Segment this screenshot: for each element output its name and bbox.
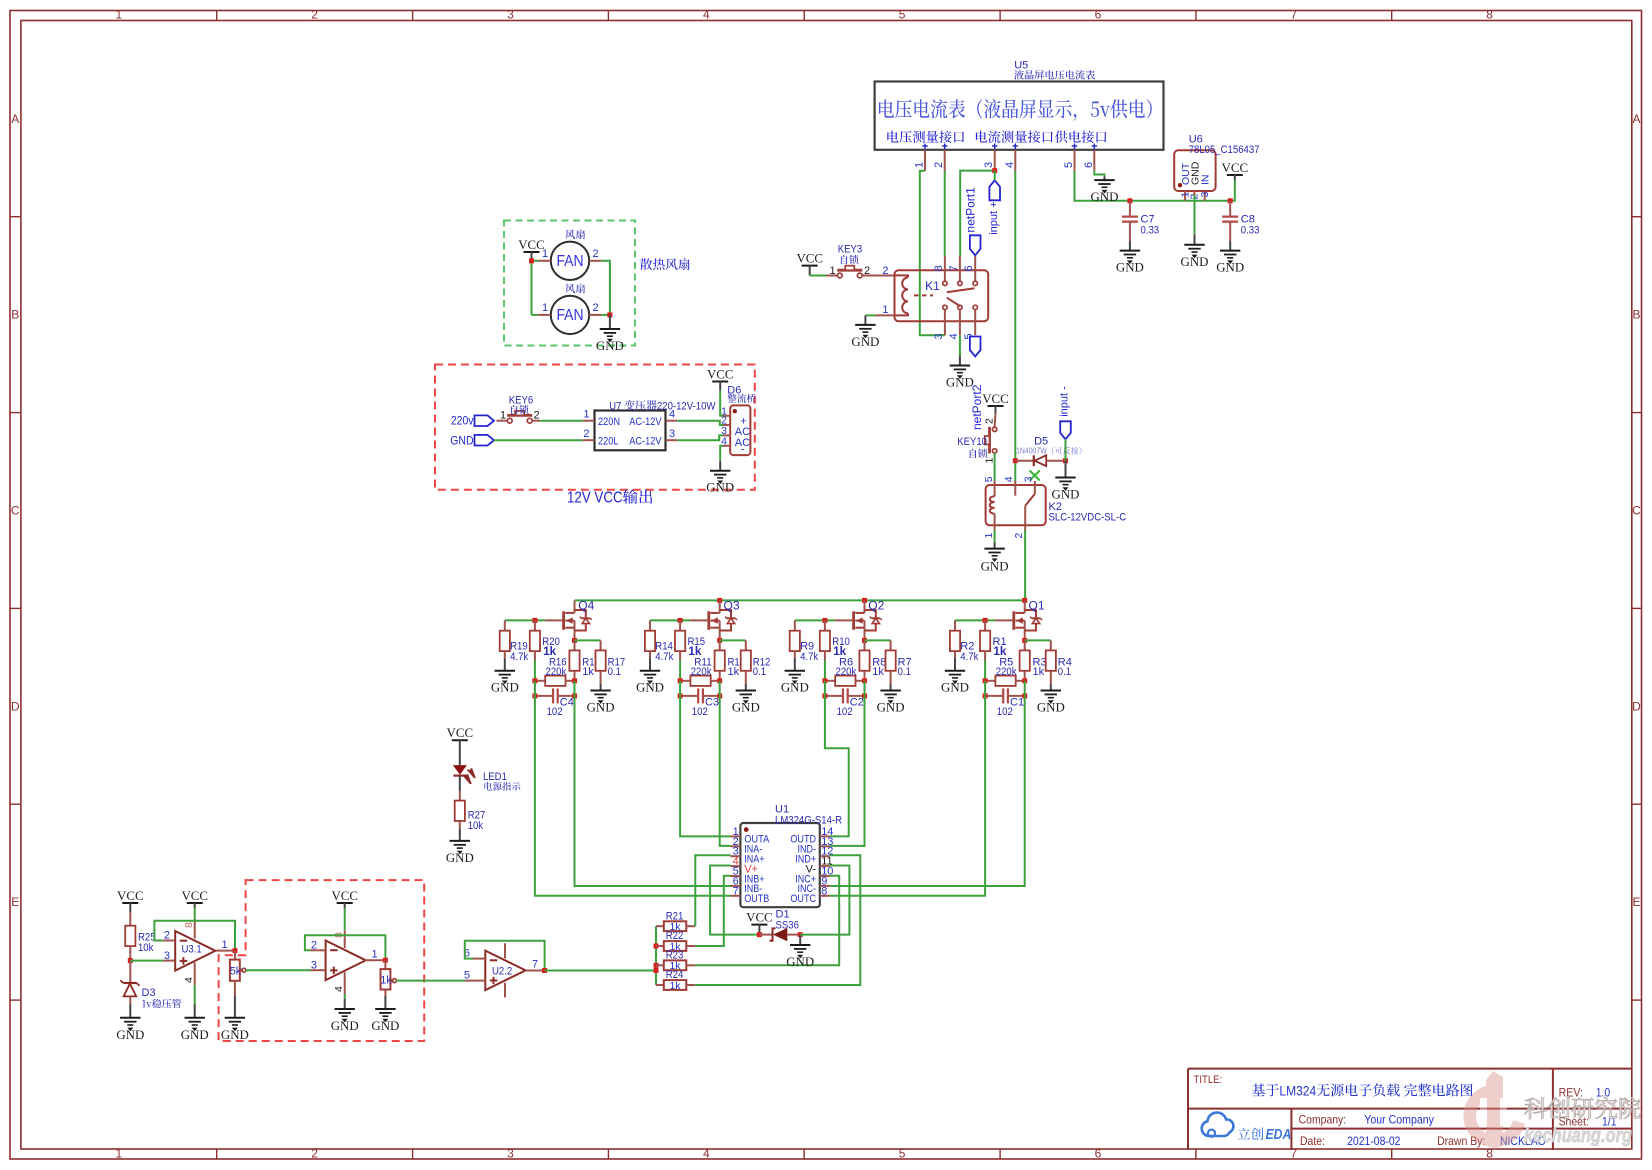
wire U5 pin4 down to K2 pin4 bbox=[1014, 171, 1016, 481]
dashed enclosure cooling fans bbox=[504, 221, 635, 346]
node R16 ends bbox=[532, 678, 537, 683]
wire gate column Q3 bbox=[679, 661, 681, 681]
wire U2.1 pin4 to GND bbox=[344, 994, 346, 999]
ground C8 bbox=[1229, 241, 1231, 251]
svg-text:220k: 220k bbox=[691, 666, 712, 678]
svg-text:FAN: FAN bbox=[556, 253, 583, 270]
switch KEY6 bbox=[497, 420, 508, 422]
svg-text:IN: IN bbox=[1200, 175, 1212, 186]
svg-text:5k: 5k bbox=[230, 965, 242, 977]
wire gate node Q4 bbox=[505, 619, 545, 621]
zener D3 1v bbox=[129, 961, 131, 983]
svg-text:TITLE:: TITLE: bbox=[1194, 1074, 1223, 1086]
svg-text:102: 102 bbox=[692, 706, 708, 718]
ground D1 bbox=[799, 935, 801, 945]
svg-text:3: 3 bbox=[507, 7, 514, 21]
svg-text:netPort1: netPort1 bbox=[963, 187, 977, 233]
wire drain bus bbox=[575, 599, 1025, 601]
svg-text:8: 8 bbox=[183, 922, 195, 928]
svg-text:input -: input - bbox=[1059, 386, 1071, 417]
svg-text:4.7k: 4.7k bbox=[655, 651, 674, 663]
svg-text:8: 8 bbox=[1486, 1146, 1493, 1160]
svg-text:U5: U5 bbox=[1014, 60, 1028, 72]
watermark kechuang bbox=[1470, 1071, 1519, 1150]
module U5 LCD volt/ammeter box bbox=[875, 82, 1164, 150]
wire sense to R7 bbox=[865, 639, 891, 641]
svg-text:8: 8 bbox=[1486, 7, 1493, 21]
svg-text:1: 1 bbox=[830, 265, 836, 277]
svg-text:VCC: VCC bbox=[518, 238, 545, 252]
svg-text:1: 1 bbox=[542, 248, 548, 260]
svg-text:0.33: 0.33 bbox=[1141, 225, 1160, 237]
svg-text:7: 7 bbox=[733, 885, 739, 897]
svg-text:4.7k: 4.7k bbox=[960, 651, 979, 663]
node C8 tap bbox=[1228, 198, 1233, 203]
wire U6 pin2 to GND bbox=[1194, 195, 1196, 235]
svg-text:GND: GND bbox=[981, 560, 1009, 574]
svg-text:input +: input + bbox=[988, 201, 1000, 234]
svg-text:C: C bbox=[1632, 504, 1641, 518]
potentiometer RP 5k bbox=[234, 951, 236, 960]
svg-text:1: 1 bbox=[115, 1146, 122, 1160]
wire gate column Q2 bbox=[824, 661, 826, 681]
ground R2 bbox=[954, 659, 956, 671]
svg-text:3: 3 bbox=[669, 428, 675, 440]
svg-text:1: 1 bbox=[583, 409, 589, 421]
node R25/D3 bbox=[128, 958, 133, 963]
node C2 ends bbox=[822, 693, 827, 698]
wire K1 pin4 to GND bbox=[959, 335, 961, 355]
resistor R22 1k bbox=[656, 945, 664, 947]
node D1 anode bbox=[798, 932, 803, 937]
net flag netPort1 on K1 pin6 bbox=[970, 235, 981, 255]
wire KEY10 to K2 pin5 bbox=[994, 453, 996, 481]
svg-text:U3.1: U3.1 bbox=[182, 943, 202, 955]
node divider taps bbox=[654, 944, 659, 949]
net flag input+ bbox=[989, 180, 1000, 200]
svg-text:D: D bbox=[1632, 699, 1641, 713]
wire cell A gate to U1 OUTB bbox=[535, 696, 731, 896]
svg-text:1k: 1k bbox=[872, 666, 884, 678]
resistor R6 220k bbox=[825, 680, 835, 682]
net flag input- bbox=[1060, 421, 1071, 439]
svg-text:Q4: Q4 bbox=[578, 598, 594, 612]
wire R21 to U1 INA+ bbox=[695, 855, 730, 926]
op-amp U2.1 bbox=[326, 941, 366, 981]
label cooling fans bbox=[640, 258, 690, 270]
ground U2.1 bbox=[344, 999, 346, 1009]
resistor R5 220k bbox=[985, 680, 995, 682]
svg-text:1: 1 bbox=[882, 304, 888, 316]
svg-text:220v: 220v bbox=[451, 414, 474, 428]
svg-text:GND: GND bbox=[181, 1028, 209, 1042]
svg-text:220L: 220L bbox=[598, 435, 619, 447]
ground K1 pin4 bbox=[959, 355, 961, 365]
U5 pin 3 stub bbox=[994, 150, 996, 171]
svg-text:1: 1 bbox=[542, 302, 548, 314]
svg-text:B: B bbox=[1632, 308, 1640, 322]
svg-text:102: 102 bbox=[997, 706, 1013, 718]
wire fan return right bbox=[602, 261, 610, 315]
svg-text:3: 3 bbox=[1199, 192, 1211, 198]
no-connect X on K2 pin3 bbox=[1030, 471, 1040, 481]
wire sense to R12 bbox=[720, 639, 746, 641]
logo EasyEDA bbox=[1202, 1113, 1234, 1137]
resistor R1 1k gate bbox=[984, 620, 986, 630]
node VCC/D1 bbox=[757, 932, 762, 937]
ground R14 bbox=[649, 659, 651, 671]
wire gate column Q4 bbox=[534, 661, 536, 681]
wire R23 to U1 INC+ bbox=[695, 876, 839, 966]
svg-text:2: 2 bbox=[983, 418, 995, 424]
svg-text:GND: GND bbox=[587, 701, 615, 715]
transistor Q4 NMOS bbox=[545, 619, 562, 621]
wire D6 pin4 to GND bbox=[720, 446, 723, 461]
svg-text:4: 4 bbox=[1004, 162, 1016, 168]
svg-text:AC: AC bbox=[735, 426, 750, 438]
resistor R7 0.1 bbox=[890, 640, 892, 650]
dashed enclosure 12V supply bbox=[435, 365, 755, 490]
svg-text:LED1: LED1 bbox=[483, 771, 507, 783]
svg-text:VCC: VCC bbox=[796, 252, 823, 266]
ground U6 bbox=[1194, 235, 1196, 245]
capacitor C7 0.33 bbox=[1129, 201, 1131, 217]
title block bbox=[1187, 1069, 1189, 1150]
svg-text:220k: 220k bbox=[836, 666, 857, 678]
svg-text:0.1: 0.1 bbox=[753, 666, 766, 678]
node U2.2 output bbox=[542, 968, 547, 973]
op-amp U3.1 bbox=[175, 931, 215, 971]
wire gate/sense columns between nodes Q1 bbox=[984, 681, 986, 696]
U5 title text bbox=[879, 99, 1152, 121]
svg-text:GND: GND bbox=[1181, 255, 1209, 269]
svg-text:4: 4 bbox=[669, 409, 675, 421]
svg-text:2: 2 bbox=[592, 302, 598, 314]
svg-text:AC-12V: AC-12V bbox=[629, 435, 662, 447]
svg-text:VCC: VCC bbox=[1222, 161, 1249, 175]
wire U3.1 pin4 to GND bbox=[194, 985, 196, 1004]
svg-text:1k: 1k bbox=[728, 666, 740, 678]
resistor R10 1k gate bbox=[824, 620, 826, 630]
svg-text:220-12V-10W: 220-12V-10W bbox=[657, 400, 716, 412]
wire gate node Q1 bbox=[955, 619, 995, 621]
svg-text:C: C bbox=[11, 504, 20, 518]
svg-text:3: 3 bbox=[164, 950, 170, 962]
wire 1k wiper to U2.2 +in bbox=[396, 980, 465, 982]
switch KEY10 bbox=[994, 413, 997, 427]
svg-text:0.1: 0.1 bbox=[608, 666, 621, 678]
node R11 ends bbox=[678, 678, 683, 683]
svg-text:A: A bbox=[11, 112, 19, 126]
svg-text:5: 5 bbox=[464, 970, 470, 982]
svg-text:4: 4 bbox=[183, 977, 195, 983]
resistor R24 1k bbox=[656, 984, 664, 986]
svg-text:KEY3: KEY3 bbox=[838, 244, 863, 256]
svg-text:Q2: Q2 bbox=[868, 598, 884, 612]
svg-text:GND: GND bbox=[1052, 488, 1080, 502]
svg-text:220N: 220N bbox=[598, 416, 620, 428]
wire U5 pin5 to 5V rail bbox=[1075, 171, 1130, 201]
svg-text:102: 102 bbox=[547, 706, 563, 718]
fan M2 bbox=[551, 296, 589, 334]
ground U5 pin6 bbox=[1104, 177, 1106, 181]
wire 5k wiper to op-amp2 +in bbox=[246, 969, 311, 971]
svg-text:GND: GND bbox=[450, 433, 473, 447]
resistor R14 4.7k bbox=[649, 620, 651, 630]
svg-text:0.33: 0.33 bbox=[1241, 225, 1260, 237]
ground R17 bbox=[600, 684, 602, 691]
wire cell A sense to U1 INB- bbox=[575, 696, 731, 886]
svg-text:SLC-12VDC-SL-C: SLC-12VDC-SL-C bbox=[1049, 511, 1127, 523]
svg-text:FAN: FAN bbox=[556, 307, 583, 324]
wire gate/sense columns between nodes Q4 bbox=[534, 681, 536, 696]
ground R4 bbox=[1050, 684, 1052, 691]
svg-text:VCC: VCC bbox=[181, 889, 208, 903]
relay K2 bbox=[986, 485, 1046, 525]
svg-text:U2.2: U2.2 bbox=[492, 965, 512, 977]
resistor R27 10k bbox=[459, 791, 461, 801]
node R5 ends bbox=[983, 678, 988, 683]
svg-text:Your Company: Your Company bbox=[1364, 1113, 1434, 1127]
wire R25 node to U3.1 +in bbox=[130, 960, 163, 962]
svg-text:Date:: Date: bbox=[1300, 1134, 1325, 1148]
transformer U7 bbox=[595, 411, 666, 451]
svg-text:VCC: VCC bbox=[447, 726, 474, 740]
svg-text:GND: GND bbox=[781, 681, 809, 695]
svg-text:GND: GND bbox=[491, 681, 519, 695]
U5 pin 5 stub bbox=[1074, 150, 1076, 171]
svg-text:GND: GND bbox=[877, 701, 905, 715]
svg-text:D3: D3 bbox=[142, 987, 156, 999]
svg-text:GND: GND bbox=[596, 339, 624, 353]
svg-text:4.7k: 4.7k bbox=[800, 651, 819, 663]
net flag netPort2 on K1 pin5 bbox=[970, 337, 981, 357]
node Q2 source sense bbox=[862, 638, 867, 643]
svg-text:VCC: VCC bbox=[707, 368, 734, 382]
svg-text:5: 5 bbox=[983, 476, 995, 482]
svg-text:EDA: EDA bbox=[1266, 1127, 1292, 1143]
svg-text:0.1: 0.1 bbox=[1058, 666, 1071, 678]
wire gate/sense columns between nodes Q3 bbox=[679, 681, 681, 696]
svg-text:2: 2 bbox=[864, 265, 870, 277]
svg-text:KEY6: KEY6 bbox=[509, 395, 534, 407]
svg-text:GND: GND bbox=[636, 681, 664, 695]
svg-text:1k: 1k bbox=[669, 980, 681, 992]
U5 pin 6 stub bbox=[1093, 150, 1095, 171]
wire gate node Q2 bbox=[795, 619, 835, 621]
svg-text:2: 2 bbox=[311, 7, 318, 21]
svg-text:4: 4 bbox=[703, 7, 710, 21]
U5 pin 1 stub bbox=[924, 150, 926, 171]
ground K2 pin1 bbox=[994, 542, 996, 548]
resistor R15 1k gate bbox=[679, 620, 681, 630]
svg-text:K1: K1 bbox=[925, 279, 940, 293]
node C1 ends bbox=[983, 693, 988, 698]
wire R24 to U1 IND+ bbox=[695, 855, 860, 985]
node U5 pin3 / input+ bbox=[960, 171, 995, 257]
svg-text:6: 6 bbox=[1095, 1146, 1102, 1160]
svg-text:2: 2 bbox=[882, 265, 888, 277]
wire U7 pin3 to D6 bbox=[677, 435, 723, 440]
svg-text:6: 6 bbox=[1083, 162, 1095, 168]
svg-text:3: 3 bbox=[933, 333, 945, 339]
resistor R19 4.7k bbox=[504, 620, 506, 630]
svg-text:1.0: 1.0 bbox=[1596, 1086, 1611, 1100]
node U3.1 output bbox=[233, 948, 238, 953]
wire U2.1 feedback bbox=[305, 935, 386, 960]
U5 pin group labels bbox=[887, 131, 964, 143]
ground 1k pot bbox=[384, 996, 386, 1009]
svg-text:GND: GND bbox=[786, 955, 814, 969]
ground R12 bbox=[745, 684, 747, 691]
svg-text:2021-08-02: 2021-08-02 bbox=[1347, 1134, 1401, 1148]
svg-text:220k: 220k bbox=[996, 666, 1017, 678]
svg-text:7: 7 bbox=[532, 959, 538, 971]
svg-text:8: 8 bbox=[933, 265, 945, 271]
svg-text:3: 3 bbox=[1023, 476, 1035, 482]
svg-text:GND: GND bbox=[446, 851, 474, 865]
capacitor C1 102 bbox=[985, 695, 1003, 697]
U5 pin 2 stub bbox=[944, 150, 946, 171]
wire cell B gate to U1 OUTA bbox=[680, 696, 730, 837]
svg-text:LM324G-S14-R: LM324G-S14-R bbox=[775, 814, 842, 826]
svg-text:1k: 1k bbox=[1033, 666, 1045, 678]
svg-text:GND: GND bbox=[1116, 261, 1144, 275]
diode D5 1N4007 bbox=[1015, 460, 1034, 462]
node Q3 source sense bbox=[717, 638, 722, 643]
potentiometer RP2 1k bbox=[384, 960, 386, 969]
ground U3.1 bbox=[194, 1004, 196, 1018]
svg-text:6: 6 bbox=[963, 265, 975, 271]
svg-text:8: 8 bbox=[821, 885, 827, 897]
node C3 ends bbox=[678, 693, 683, 698]
capacitor C4 102 bbox=[535, 695, 553, 697]
svg-text:12V VCC: 12V VCC bbox=[567, 490, 623, 507]
node Q1 source sense bbox=[1022, 638, 1027, 643]
svg-text:2: 2 bbox=[164, 930, 170, 942]
ground R19 bbox=[504, 659, 506, 671]
wire U1 V+ to VCC node bbox=[710, 866, 759, 935]
resistor R23 1k bbox=[656, 964, 664, 966]
capacitor C3 102 bbox=[680, 695, 698, 697]
wire U5 pin1 to K1 pin3 bbox=[920, 171, 945, 335]
svg-text:2: 2 bbox=[933, 162, 945, 168]
resistor R9 4.7k bbox=[794, 620, 796, 630]
svg-text:Q1: Q1 bbox=[1029, 598, 1045, 612]
wire VCC to D6 pin1 bbox=[720, 390, 723, 415]
U5 pin 4 stub bbox=[1014, 150, 1016, 171]
svg-text:4: 4 bbox=[1003, 476, 1015, 482]
node D5 left on pin4 line bbox=[1013, 458, 1018, 463]
svg-text:OUTB: OUTB bbox=[744, 893, 769, 905]
svg-text:VCC: VCC bbox=[117, 889, 144, 903]
svg-text:GND: GND bbox=[1216, 261, 1244, 275]
bridge rectifier D6 bbox=[730, 405, 750, 455]
svg-text:GND: GND bbox=[371, 1019, 399, 1033]
svg-text:1: 1 bbox=[500, 410, 506, 422]
switch KEY3 bbox=[826, 275, 838, 277]
svg-text:Q3: Q3 bbox=[724, 598, 740, 612]
svg-text:1: 1 bbox=[914, 162, 926, 168]
IC U1 LM324G-S14-R bbox=[740, 823, 819, 907]
svg-text:5: 5 bbox=[899, 7, 906, 21]
ground rectifier bbox=[719, 461, 721, 471]
svg-text:10k: 10k bbox=[138, 942, 154, 954]
node D5 right bbox=[1063, 458, 1068, 463]
wire K2 pin2 down to drain bus bbox=[1024, 530, 1026, 600]
svg-text:Company:: Company: bbox=[1299, 1113, 1347, 1127]
ground fans bbox=[609, 315, 611, 329]
svg-text:5: 5 bbox=[1063, 162, 1075, 168]
svg-text:GND: GND bbox=[851, 335, 879, 349]
ground 5k pot bbox=[234, 996, 236, 1018]
svg-text:220k: 220k bbox=[546, 666, 567, 678]
wire U5 pin6 to GND bbox=[1094, 171, 1104, 177]
svg-text:D: D bbox=[11, 699, 20, 713]
wire sense to R17 bbox=[575, 639, 601, 641]
svg-text:VCC: VCC bbox=[746, 911, 773, 925]
wire U7 pin4 to D6 bbox=[677, 421, 723, 425]
fan M1 bbox=[551, 242, 589, 280]
resistor R20 1k gate bbox=[534, 620, 536, 630]
ground R7 bbox=[890, 684, 892, 691]
wire gate node Q3 bbox=[650, 619, 690, 621]
svg-text:3: 3 bbox=[983, 162, 995, 168]
svg-text:GND: GND bbox=[941, 681, 969, 695]
wire gate/sense columns between nodes Q2 bbox=[824, 681, 826, 696]
resistor R18 1k sense bbox=[574, 640, 576, 650]
svg-text:2: 2 bbox=[592, 248, 598, 260]
svg-text:4: 4 bbox=[948, 333, 960, 339]
svg-text:OUTC: OUTC bbox=[790, 893, 816, 905]
svg-text:LM324: LM324 bbox=[1279, 1082, 1316, 1098]
node C7 tap bbox=[1127, 198, 1132, 203]
svg-text:10k: 10k bbox=[468, 820, 484, 832]
node C4 ends bbox=[532, 693, 537, 698]
capacitor C2 102 bbox=[825, 695, 843, 697]
resistor R8 1k sense bbox=[864, 640, 866, 650]
svg-text:VCC: VCC bbox=[982, 392, 1009, 406]
resistor R2 4.7k bbox=[954, 620, 956, 630]
resistor R3 1k sense bbox=[1024, 640, 1026, 650]
wire R22 to U1 INB+ bbox=[695, 876, 730, 946]
wire divider left bus bbox=[655, 926, 657, 985]
svg-text:A: A bbox=[1632, 112, 1640, 126]
svg-text:2: 2 bbox=[534, 410, 540, 422]
svg-text:1: 1 bbox=[222, 939, 228, 951]
svg-text:E: E bbox=[11, 895, 19, 909]
wire K1 pin1 to GND bbox=[875, 314, 894, 316]
svg-text:3: 3 bbox=[311, 959, 317, 971]
ground K1 pin1 bbox=[864, 315, 866, 325]
transistor Q3 NMOS bbox=[690, 619, 707, 621]
node R6 ends bbox=[822, 678, 827, 683]
wire 5V rail bbox=[1130, 181, 1235, 201]
resistor R17 0.1 bbox=[600, 640, 602, 650]
svg-text:VCC: VCC bbox=[331, 889, 358, 903]
svg-text:GND: GND bbox=[706, 481, 734, 495]
resistor R25 10k bbox=[129, 903, 131, 912]
node Q4 source sense bbox=[572, 638, 577, 643]
svg-text:6: 6 bbox=[1095, 7, 1102, 21]
wire U2.2 feedback bbox=[465, 941, 545, 971]
resistor R16 220k bbox=[535, 680, 545, 682]
wire gate column Q1 bbox=[984, 661, 986, 681]
svg-text:GND: GND bbox=[116, 1028, 144, 1042]
svg-text:1: 1 bbox=[115, 7, 122, 21]
node drain bus joints bbox=[717, 598, 722, 603]
svg-text:1k: 1k bbox=[582, 666, 594, 678]
